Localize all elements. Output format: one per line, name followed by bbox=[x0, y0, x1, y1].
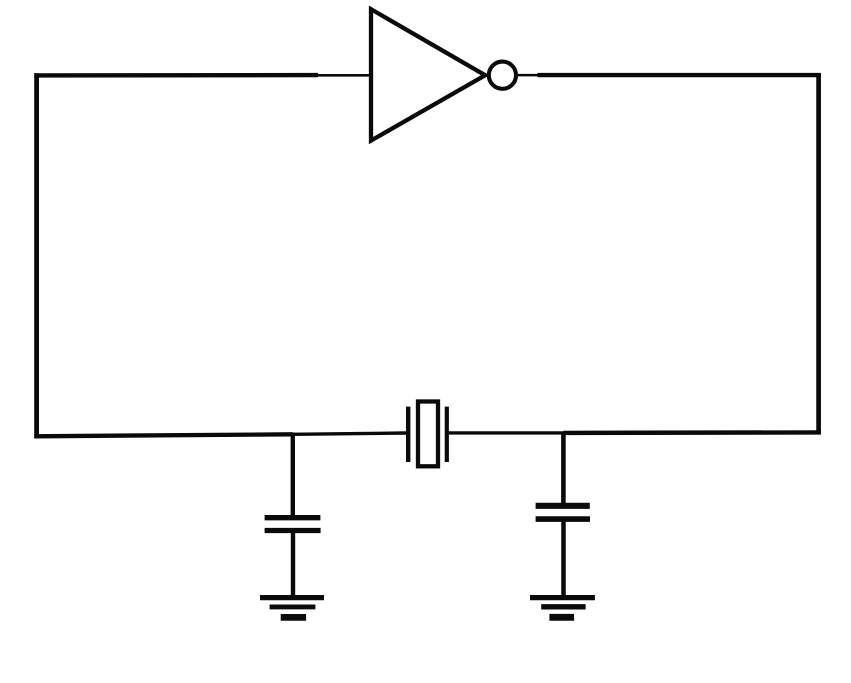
capacitor C2 (right load capacitor) bbox=[536, 506, 590, 519]
node O (inversion bubble on inverter output) bbox=[489, 62, 516, 89]
ground (left ground symbol) bbox=[260, 598, 324, 618]
wire from capacitor C2 to ground bbox=[561, 522, 566, 597]
op-amp U1 (inverter / NOT gate triangle) bbox=[371, 9, 485, 140]
ground (right ground symbol) bbox=[530, 598, 595, 618]
wire output net: from bubble to right rail bbox=[516, 74, 820, 77]
capacitor C1 (left load capacitor) bbox=[265, 518, 321, 531]
wire left rail (vertical) bbox=[34, 73, 39, 438]
wire right rail (vertical) bbox=[816, 73, 821, 435]
crystal X1 (quartz crystal symbol) bbox=[408, 402, 447, 467]
crystal X1 body rectangle bbox=[418, 402, 438, 467]
wire bottom net right: from crystal right electrode to right rail bbox=[449, 431, 821, 435]
wire bottom net left: from left rail to crystal left electrode bbox=[34, 433, 406, 436]
wire from bottom net to capacitor C1 bbox=[291, 433, 295, 516]
crystal X1 left electrode plate bbox=[406, 407, 410, 462]
crystal X1 right electrode plate bbox=[445, 407, 449, 462]
wire top net: input feedback wire from left rail to inverter input bbox=[34, 73, 369, 78]
wire from capacitor C1 to ground bbox=[291, 533, 295, 597]
wire from bottom net to capacitor C2 bbox=[561, 432, 566, 505]
